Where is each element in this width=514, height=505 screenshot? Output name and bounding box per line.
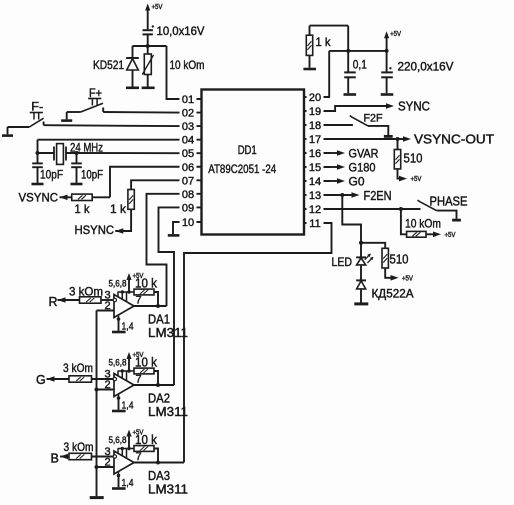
svg-text:DA1: DA1 — [148, 313, 170, 327]
svg-text:LED: LED — [332, 255, 353, 269]
svg-text:10 k: 10 k — [135, 356, 158, 370]
svg-text:GVAR: GVAR — [349, 147, 379, 161]
svg-text:LM311: LM311 — [148, 405, 188, 419]
svg-text:2: 2 — [105, 300, 111, 312]
svg-text:PHASE: PHASE — [430, 195, 468, 209]
svg-text:3 kOm: 3 kOm — [63, 361, 93, 375]
svg-text:10: 10 — [182, 217, 194, 229]
svg-text:10 k: 10 k — [135, 433, 158, 447]
svg-text:VSYNC: VSYNC — [19, 191, 59, 205]
svg-text:G0: G0 — [349, 175, 365, 189]
svg-text:G180: G180 — [349, 161, 376, 175]
svg-text:KD521: KD521 — [93, 58, 124, 72]
svg-text:B: B — [51, 452, 59, 466]
svg-text:17: 17 — [309, 134, 321, 146]
svg-text:5,6,8: 5,6,8 — [109, 358, 127, 368]
svg-text:12: 12 — [309, 204, 321, 216]
svg-text:07: 07 — [182, 175, 194, 187]
svg-text:09: 09 — [182, 202, 194, 214]
svg-text:HSYNC: HSYNC — [75, 223, 115, 237]
svg-text:510: 510 — [404, 151, 423, 166]
svg-text:10,0x16V: 10,0x16V — [157, 24, 205, 38]
svg-text:LM311: LM311 — [148, 326, 188, 340]
svg-text:2: 2 — [105, 457, 111, 469]
svg-text:F+: F+ — [89, 86, 102, 100]
svg-text:06: 06 — [182, 162, 194, 174]
svg-text:220,0x16V: 220,0x16V — [398, 60, 454, 74]
svg-text:1 k: 1 k — [110, 202, 127, 216]
svg-text:13: 13 — [309, 190, 321, 202]
svg-text:11: 11 — [309, 218, 320, 230]
svg-text:AT89C2051 -24: AT89C2051 -24 — [208, 162, 276, 176]
svg-text:08: 08 — [182, 189, 194, 201]
svg-text:3 kOm: 3 kOm — [69, 284, 103, 298]
svg-text:15: 15 — [309, 162, 321, 174]
svg-text:F2EN: F2EN — [364, 189, 392, 203]
svg-text:1,4: 1,4 — [122, 322, 134, 333]
svg-text:5,6,8: 5,6,8 — [109, 435, 127, 445]
svg-text:F-: F- — [31, 100, 43, 114]
svg-text:510: 510 — [390, 252, 409, 267]
svg-text:10pF: 10pF — [81, 168, 103, 182]
svg-text:VSYNC-OUT: VSYNC-OUT — [414, 133, 494, 147]
svg-text:F2F: F2F — [364, 113, 383, 125]
svg-text:20: 20 — [309, 92, 321, 104]
svg-text:03: 03 — [182, 121, 194, 133]
svg-text:10 k: 10 k — [135, 277, 158, 291]
svg-text:02: 02 — [182, 108, 194, 120]
svg-text:+5V: +5V — [390, 31, 401, 38]
svg-text:+5V: +5V — [402, 275, 413, 282]
svg-text:04: 04 — [182, 135, 194, 147]
svg-text:7: 7 — [136, 295, 142, 307]
svg-text:1 k: 1 k — [75, 202, 91, 216]
svg-text:DD1: DD1 — [238, 143, 257, 157]
svg-text:7: 7 — [136, 374, 142, 386]
svg-text:10pF: 10pF — [40, 168, 63, 182]
svg-text:7: 7 — [136, 451, 142, 463]
svg-text:1 k: 1 k — [316, 35, 332, 49]
svg-text:R: R — [49, 295, 58, 309]
svg-text:3 kOm: 3 kOm — [64, 440, 94, 454]
svg-text:+5V: +5V — [411, 176, 422, 183]
svg-text:+5V: +5V — [152, 4, 163, 11]
svg-text:DA3: DA3 — [148, 469, 170, 483]
svg-text:1,4: 1,4 — [122, 478, 134, 489]
svg-text:19: 19 — [309, 106, 321, 118]
svg-text:10 kOm: 10 kOm — [170, 58, 205, 72]
svg-text:05: 05 — [182, 148, 194, 160]
svg-text:5,6,8: 5,6,8 — [109, 279, 127, 289]
svg-text:0,1: 0,1 — [353, 58, 367, 72]
svg-text:LM311: LM311 — [148, 483, 188, 497]
svg-text:DA2: DA2 — [148, 392, 170, 406]
svg-text:КД522А: КД522А — [372, 287, 414, 301]
svg-text:+5V: +5V — [445, 232, 456, 239]
svg-text:G: G — [36, 373, 46, 387]
svg-text:1,4: 1,4 — [122, 401, 134, 412]
svg-text:16: 16 — [309, 148, 321, 160]
svg-text:14: 14 — [309, 176, 321, 188]
svg-text:10 kOm: 10 kOm — [405, 217, 441, 231]
svg-text:SYNC: SYNC — [398, 100, 430, 114]
svg-text:18: 18 — [309, 120, 321, 132]
svg-text:01: 01 — [182, 94, 194, 106]
svg-text:2: 2 — [105, 379, 111, 391]
